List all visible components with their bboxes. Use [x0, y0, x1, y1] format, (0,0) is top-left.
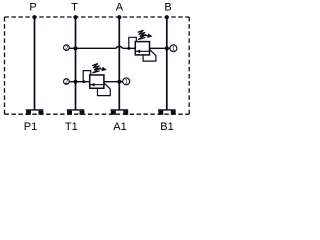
svg-text:T1: T1: [65, 121, 78, 133]
svg-text:B1: B1: [160, 121, 173, 133]
svg-text:A: A: [116, 1, 124, 13]
svg-text:P: P: [29, 1, 36, 13]
svg-text:B: B: [164, 1, 171, 13]
svg-text:T: T: [71, 1, 78, 13]
svg-text:A1: A1: [113, 121, 126, 133]
svg-text:P1: P1: [24, 121, 37, 133]
